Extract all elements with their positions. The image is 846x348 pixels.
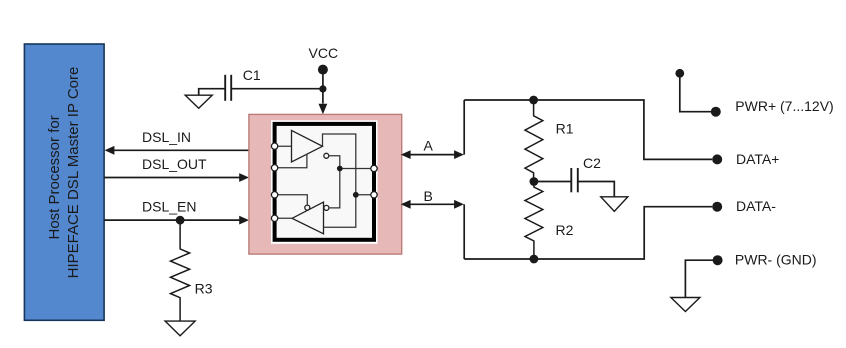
- wire bottom bus node: [464, 207, 712, 259]
- wire driver output to pin B: [323, 134, 356, 227]
- ground (R3): [165, 321, 195, 336]
- pin 1: [271, 143, 277, 149]
- wire DSL_EN: [104, 199, 249, 225]
- wire receiver output to pin4: [275, 217, 293, 219]
- svg-text:DSL_EN: DSL_EN: [142, 199, 196, 215]
- junction (internal A): [337, 166, 343, 172]
- svg-text:DSL_OUT: DSL_OUT: [142, 156, 207, 172]
- resistor R1: [525, 96, 574, 182]
- svg-text:PWR+ (7...12V): PWR+ (7...12V): [735, 98, 833, 114]
- svg-text:Host Processor for: Host Processor for: [46, 115, 63, 239]
- pin B (right): [371, 192, 377, 198]
- svg-text:VCC: VCC: [309, 45, 339, 61]
- resistor R2: [525, 182, 574, 260]
- transceiver U1 outer (pink): [249, 114, 402, 254]
- wire DSL_IN: [105, 129, 249, 155]
- node PWR+: [675, 69, 833, 117]
- pin 2: [271, 165, 277, 171]
- wire driver inverted output to pin A: [329, 156, 340, 208]
- driver buffer (inside U1): [292, 130, 329, 162]
- wire top bus node: [464, 100, 712, 159]
- svg-text:C1: C1: [243, 67, 261, 83]
- wire DSL_OUT: [104, 156, 249, 182]
- pin A (right): [371, 165, 377, 171]
- node DATA+: [712, 151, 779, 167]
- junction (R2 bottom): [530, 255, 539, 264]
- svg-text:DATA+: DATA+: [736, 151, 779, 167]
- ground (C2): [601, 197, 628, 212]
- node DATA-: [712, 198, 776, 214]
- node PWR-: [685, 252, 816, 298]
- junction (internal B): [353, 192, 359, 198]
- svg-text:R2: R2: [556, 222, 574, 238]
- svg-text:A: A: [424, 138, 434, 154]
- ground (C1): [185, 95, 212, 108]
- svg-text:R1: R1: [556, 121, 574, 137]
- svg-text:PWR- (GND): PWR- (GND): [735, 252, 817, 268]
- junction (R1/R2/C2): [530, 177, 539, 186]
- VCC net: [309, 45, 339, 115]
- svg-text:B: B: [424, 188, 433, 204]
- svg-text:C2: C2: [583, 155, 601, 171]
- pin 4: [271, 215, 277, 221]
- pin 3: [271, 192, 277, 198]
- wire pin1 to driver input: [275, 145, 292, 147]
- wire internal A to right pin: [340, 168, 374, 170]
- wire node B (double arrow): [401, 188, 464, 259]
- host processor block U2: [24, 44, 104, 320]
- wire node A (double arrow): [401, 100, 464, 159]
- ground (PWR-): [671, 298, 700, 312]
- capacitor C1: [199, 67, 322, 101]
- svg-text:DSL_IN: DSL_IN: [142, 129, 191, 145]
- svg-text:R3: R3: [195, 280, 213, 296]
- wire internal B to right pin: [356, 194, 374, 196]
- capacitor C2: [534, 155, 614, 197]
- svg-text:HIPEFACE DSL Master IP Core: HIPEFACE DSL Master IP Core: [65, 67, 82, 279]
- resistor R3: [171, 220, 213, 321]
- wire pin2 to driver enable: [275, 154, 307, 168]
- svg-text:DATA-: DATA-: [736, 198, 776, 214]
- wire pin3 to receiver enable: [275, 195, 308, 205]
- receiver buffer (inside U1): [292, 202, 329, 234]
